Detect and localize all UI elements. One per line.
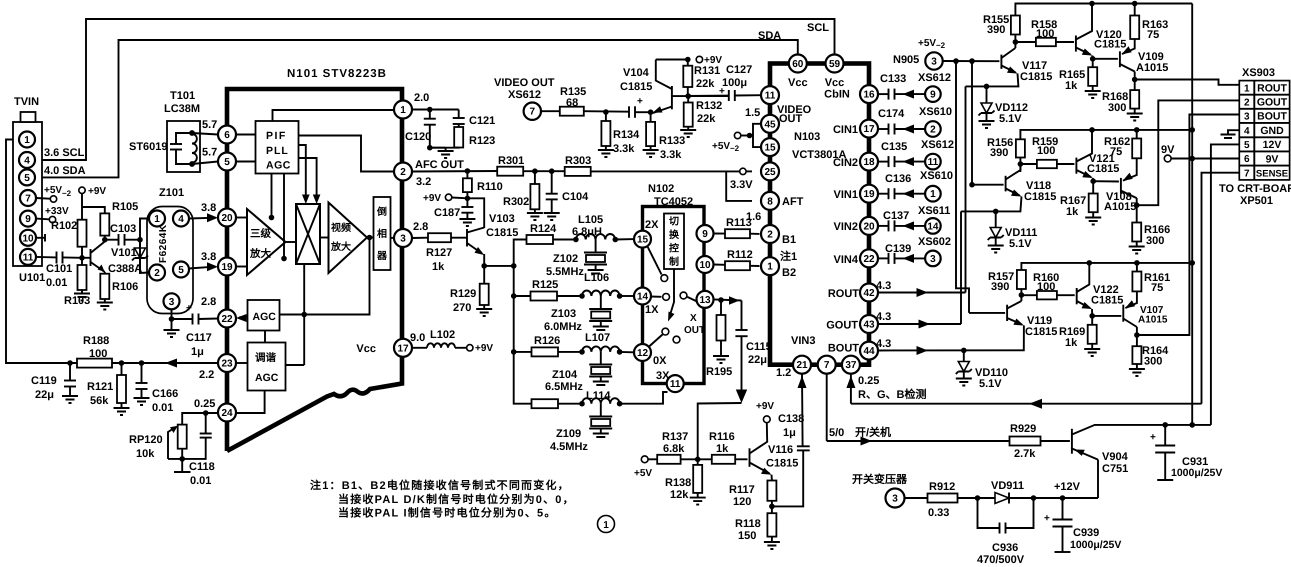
svg-text:XS602: XS602 <box>918 236 951 248</box>
N103 pin 18 <box>860 153 878 171</box>
resistor R138 <box>697 459 699 465</box>
wire AGC bottom to amp node2 <box>283 174 285 259</box>
ceramic filter Z109 <box>600 404 602 417</box>
resistor R157 <box>1017 270 1026 289</box>
svg-text:V116: V116 <box>768 444 793 456</box>
ceramic filter Z102 <box>595 240 597 253</box>
node C103 junction <box>102 237 108 243</box>
svg-text:N103: N103 <box>794 131 820 143</box>
svg-text:N905: N905 <box>893 54 919 66</box>
svg-text:C187: C187 <box>434 207 460 219</box>
terminal +5V <box>641 456 648 463</box>
svg-text:注1：B1、B2电位随接收信号制式不同而变化，: 注1：B1、B2电位随接收信号制式不同而变化， <box>310 479 570 492</box>
svg-text:4.3: 4.3 <box>876 338 891 350</box>
svg-text:C118: C118 <box>189 461 215 473</box>
transistor V120 <box>1075 36 1077 52</box>
capacitor C138 <box>797 445 810 447</box>
N103 pin 2 <box>761 225 779 243</box>
N103 pin 25 <box>761 162 779 180</box>
svg-text:1: 1 <box>603 520 609 531</box>
svg-text:120: 120 <box>733 496 751 508</box>
svg-text:开关变压器: 开关变压器 <box>852 473 908 486</box>
svg-text:PLL: PLL <box>266 145 289 157</box>
resistor R162 <box>1136 130 1138 139</box>
svg-text:1: 1 <box>400 105 406 116</box>
svg-text:SENSE: SENSE <box>1256 169 1288 180</box>
pin 1 <box>19 132 35 148</box>
svg-text:放大: 放大 <box>249 247 271 260</box>
svg-text:AGC: AGC <box>253 311 277 323</box>
svg-text:15: 15 <box>637 235 649 246</box>
node V103 emitter <box>481 263 487 269</box>
svg-text:19: 19 <box>863 189 875 200</box>
svg-text:R102: R102 <box>51 220 77 232</box>
svg-text:C119: C119 <box>31 375 57 387</box>
svg-text:3.8: 3.8 <box>201 202 216 214</box>
N103 pin 22 <box>860 249 878 267</box>
svg-text:当接收PAL I制信号时电位分别为0、5。: 当接收PAL I制信号时电位分别为0、5。 <box>338 507 557 520</box>
N103 pin 42 <box>860 284 878 302</box>
svg-text:2.8: 2.8 <box>201 296 216 308</box>
diode VD911 <box>995 493 1009 504</box>
wire T101 to pin6 <box>192 133 218 135</box>
svg-text:21: 21 <box>796 360 808 371</box>
wire 9V distribution riser <box>1191 4 1193 425</box>
svg-text:4.5MHz: 4.5MHz <box>550 441 588 453</box>
resistor R135 <box>541 110 560 112</box>
svg-text:9.0: 9.0 <box>410 332 425 344</box>
svg-text:300: 300 <box>1146 235 1164 247</box>
svg-text:C1815: C1815 <box>766 458 798 470</box>
wire +9V rail (stage2) <box>1020 130 1192 139</box>
svg-text:−2: −2 <box>936 41 946 50</box>
N103 pin 7 <box>818 356 836 374</box>
svg-text:0.01: 0.01 <box>190 475 211 487</box>
svg-text:3: 3 <box>931 57 937 68</box>
pin 11 <box>20 249 36 265</box>
svg-text:4.3: 4.3 <box>876 311 891 323</box>
ground (C120) <box>445 148 447 151</box>
N101 pin 17 Vcc <box>394 339 412 357</box>
svg-text:10: 10 <box>699 260 711 271</box>
svg-text:C939: C939 <box>1073 527 1099 539</box>
SECTION-G <box>756 374 1202 507</box>
Z101 pin 4 <box>173 211 189 227</box>
connector U101 TVIN body <box>13 122 42 266</box>
IC N102 outline <box>643 207 705 384</box>
N102 pin 14 <box>634 288 651 305</box>
svg-text:10k: 10k <box>136 448 155 460</box>
svg-text:1000μ/25V: 1000μ/25V <box>1171 467 1222 479</box>
wire pin5 to PIF <box>236 161 256 163</box>
svg-text:3.8: 3.8 <box>201 251 216 263</box>
svg-text:68: 68 <box>566 97 578 109</box>
svg-text:18: 18 <box>863 157 875 168</box>
capacitor C101 <box>36 256 57 259</box>
svg-text:U101: U101 <box>19 272 45 284</box>
IC N103 bus outline <box>770 64 869 365</box>
SECTION-H <box>310 479 615 533</box>
wire pin20 to amp <box>236 217 247 219</box>
resistor R163 <box>1134 4 1136 16</box>
svg-text:3: 3 <box>930 254 936 265</box>
pin 7 <box>20 190 36 206</box>
svg-text:1.6: 1.6 <box>746 211 761 223</box>
resistor R103 <box>81 258 83 265</box>
svg-text:3.6 SCL: 3.6 SCL <box>44 147 85 159</box>
svg-text:C174: C174 <box>878 108 905 120</box>
svg-text:GOUT: GOUT <box>1257 97 1288 109</box>
svg-text:R303: R303 <box>565 155 591 167</box>
svg-text:Z101: Z101 <box>159 187 184 199</box>
svg-text:45: 45 <box>764 119 776 130</box>
N103 pin 60 <box>789 55 807 73</box>
svg-text:1.5: 1.5 <box>745 107 760 119</box>
svg-text:1μ: 1μ <box>191 346 204 358</box>
svg-text:倒: 倒 <box>376 206 387 218</box>
svg-text:22μ: 22μ <box>35 389 54 401</box>
svg-text:16: 16 <box>863 90 875 101</box>
Z101 pin 1 <box>149 211 165 227</box>
svg-text:3: 3 <box>1244 112 1250 123</box>
resistor R131 <box>687 60 689 66</box>
zener VD110 <box>963 350 965 361</box>
svg-text:19: 19 <box>221 262 233 273</box>
svg-text:5.7: 5.7 <box>202 119 217 131</box>
svg-text:N101 STV8223B: N101 STV8223B <box>287 68 387 80</box>
svg-text:2: 2 <box>767 230 773 241</box>
ground (Z101 pin3) <box>164 330 180 337</box>
svg-text:100: 100 <box>89 348 107 360</box>
wire pin13 X OUT to C115 <box>714 299 742 300</box>
svg-text:6.8k: 6.8k <box>663 443 685 455</box>
SECTION-A <box>6 19 835 363</box>
svg-text:0.01: 0.01 <box>152 402 173 414</box>
ceramic filter Z103 <box>600 296 602 309</box>
svg-text:0.25: 0.25 <box>858 375 879 387</box>
svg-text:44: 44 <box>863 346 875 357</box>
wire +9V rail down <box>81 194 83 220</box>
svg-text:2: 2 <box>154 268 160 279</box>
svg-text:C121: C121 <box>469 115 495 127</box>
resistor R123 <box>458 124 460 127</box>
svg-text:C120: C120 <box>405 131 431 143</box>
svg-text:60: 60 <box>792 59 804 70</box>
svg-text:SCL: SCL <box>807 22 829 34</box>
svg-text:A1015: A1015 <box>1136 62 1168 74</box>
capacitor C117 <box>172 318 193 320</box>
svg-text:OUT: OUT <box>779 113 803 125</box>
svg-text:15: 15 <box>764 143 776 154</box>
transistor V904 <box>1071 429 1073 454</box>
svg-text:C101: C101 <box>46 263 72 275</box>
svg-text:12: 12 <box>637 348 649 359</box>
resistor R159 <box>1020 163 1037 165</box>
svg-text:BOUT: BOUT <box>1257 111 1287 123</box>
svg-text:0X: 0X <box>653 355 667 367</box>
capacitor C936 <box>978 498 1000 528</box>
wire B-out to XS903 row3 <box>1137 115 1239 336</box>
svg-text:5: 5 <box>224 157 230 168</box>
wire mixer to video amp <box>320 237 329 239</box>
svg-text:5: 5 <box>24 173 30 184</box>
svg-text:75: 75 <box>1110 146 1122 158</box>
svg-text:R126: R126 <box>534 335 560 347</box>
ground (XS903 GND row) <box>1228 130 1239 134</box>
svg-text:9: 9 <box>25 214 31 225</box>
svg-text:B2: B2 <box>782 267 796 279</box>
svg-text:+9V: +9V <box>423 193 441 204</box>
svg-text:V104: V104 <box>623 67 650 79</box>
wire pin19 to amp <box>236 266 247 268</box>
svg-text:ST6019: ST6019 <box>129 141 168 153</box>
resistor R126 <box>532 347 559 356</box>
resistor R168 <box>1134 80 1136 91</box>
svg-text:CIN1: CIN1 <box>833 124 858 136</box>
svg-text:Z104: Z104 <box>552 369 578 381</box>
svg-text:10: 10 <box>22 233 34 244</box>
svg-text:R121: R121 <box>87 381 113 393</box>
svg-text:1μ: 1μ <box>783 427 796 439</box>
svg-text:11: 11 <box>765 91 776 102</box>
IC N101 outline <box>227 89 402 451</box>
SECTION-E <box>688 55 926 402</box>
svg-text:T101: T101 <box>170 90 195 102</box>
resistor R155 <box>1011 16 1020 35</box>
svg-text:XS903: XS903 <box>1242 67 1275 79</box>
svg-text:A1015: A1015 <box>1104 201 1136 213</box>
svg-text:100: 100 <box>1037 145 1055 157</box>
svg-text:23: 23 <box>221 359 233 370</box>
svg-text:XS611: XS611 <box>918 205 950 217</box>
wire Z101 pin5 to N101 pin19 (arrow) <box>189 267 212 269</box>
SECTION-B <box>129 68 412 451</box>
svg-text:AFT: AFT <box>782 196 804 208</box>
transistor V122 <box>1076 288 1078 304</box>
svg-text:Z109: Z109 <box>556 428 581 440</box>
svg-text:Z103: Z103 <box>551 308 576 320</box>
svg-text:3: 3 <box>400 234 406 245</box>
svg-text:R103: R103 <box>64 295 90 307</box>
wire Z101 pin4 to N101 pin20 (arrow) <box>189 217 212 220</box>
svg-text:器: 器 <box>376 250 388 262</box>
svg-text:1k: 1k <box>716 443 729 455</box>
capacitor C119 <box>69 363 71 381</box>
arrows PIF to mixer <box>299 145 306 198</box>
svg-text:2: 2 <box>930 125 936 136</box>
svg-text:+: + <box>1044 513 1050 524</box>
ceramic filter Z104 <box>600 352 602 365</box>
N103 pin 17 <box>860 120 878 138</box>
resistor R195 <box>720 300 722 315</box>
svg-text:17: 17 <box>397 343 409 354</box>
svg-text:6.5MHz: 6.5MHz <box>545 381 583 393</box>
svg-text:R106: R106 <box>112 281 138 293</box>
resistor R929 <box>1010 437 1041 446</box>
N103 pin 8 AFT <box>761 192 779 210</box>
resistor R302 <box>534 171 536 184</box>
svg-text:25: 25 <box>764 167 776 178</box>
wire V117 emitter line <box>966 74 1019 87</box>
svg-text:11: 11 <box>670 379 681 390</box>
coupling capacitor <box>628 106 630 118</box>
wire +9V rail (stage3) <box>1021 263 1192 270</box>
svg-text:VIN1: VIN1 <box>834 189 858 201</box>
svg-text:+5V: +5V <box>44 185 62 196</box>
svg-text:R105: R105 <box>112 201 138 213</box>
wire C115 to V116 base node <box>698 403 742 459</box>
svg-text:470/500V: 470/500V <box>977 554 1025 566</box>
wire T101 to pin5 <box>192 162 218 165</box>
svg-text:150: 150 <box>738 530 756 542</box>
svg-text:100: 100 <box>1037 281 1055 293</box>
wire pin9 to +33V terminal <box>36 218 49 221</box>
svg-text:C137: C137 <box>883 210 909 222</box>
svg-text:R195: R195 <box>706 366 732 378</box>
video amp triangle (视频放大) <box>329 203 368 274</box>
transistor V116 <box>749 448 751 467</box>
svg-text:4: 4 <box>1244 126 1250 137</box>
svg-text:V904: V904 <box>1102 451 1129 463</box>
svg-text:+5V: +5V <box>634 468 652 479</box>
svg-text:12k: 12k <box>670 489 689 501</box>
svg-text:GND: GND <box>1260 125 1284 137</box>
svg-text:7: 7 <box>530 107 536 118</box>
svg-text:R、G、B检测: R、G、B检测 <box>858 388 926 401</box>
resistor R121 <box>121 363 123 375</box>
phase inverter box (倒相器) <box>374 197 391 270</box>
svg-text:2: 2 <box>1244 97 1250 108</box>
wire +12V line <box>1009 497 1098 499</box>
svg-text:100: 100 <box>1036 28 1054 40</box>
resistor R301 <box>497 167 523 176</box>
capacitor C121 <box>458 110 460 119</box>
svg-text:300: 300 <box>1108 102 1126 114</box>
svg-text:+: + <box>186 303 192 314</box>
wire pin7 down to on/off line <box>826 374 828 441</box>
svg-text:+9V: +9V <box>88 186 106 197</box>
svg-text:20: 20 <box>863 221 875 232</box>
svg-text:3.2: 3.2 <box>416 176 431 188</box>
svg-text:5.5MHz: 5.5MHz <box>546 266 584 278</box>
svg-text:2: 2 <box>400 167 406 178</box>
svg-text:5.7: 5.7 <box>202 147 217 159</box>
wire on/off line to R929 <box>827 440 1010 442</box>
svg-text:14: 14 <box>637 292 649 303</box>
svg-text:6.0MHz: 6.0MHz <box>544 321 582 333</box>
svg-text:L107: L107 <box>585 332 610 344</box>
wire pin7 to +5V-2 terminal <box>36 197 50 200</box>
svg-text:37: 37 <box>845 360 857 371</box>
N101 pin 1 <box>394 101 412 119</box>
svg-text:Vcc: Vcc <box>825 77 845 89</box>
N102 pin 11 <box>667 375 684 392</box>
svg-text:7: 7 <box>824 360 830 371</box>
svg-text:390: 390 <box>990 147 1008 159</box>
Z101 pin 5 <box>173 262 189 278</box>
wire zener node to Z101 pin1/pin2 <box>140 219 149 274</box>
svg-text:R929: R929 <box>1010 423 1036 435</box>
wire V118 emitter line <box>961 197 1022 212</box>
svg-text:1k: 1k <box>1065 80 1078 92</box>
svg-text:VIN3: VIN3 <box>791 335 815 347</box>
svg-text:切: 切 <box>669 216 679 228</box>
terminal +9V <box>79 187 85 193</box>
svg-text:+5V: +5V <box>712 141 730 152</box>
svg-text:−2: −2 <box>730 144 740 153</box>
svg-text:1X: 1X <box>645 304 659 316</box>
svg-text:75: 75 <box>1147 29 1159 41</box>
N101 pin 20 <box>218 209 236 227</box>
wire Z101 pin3 down <box>171 309 173 319</box>
transistor V117 <box>1000 55 1002 69</box>
resistor R132 <box>687 96 689 102</box>
block 切换控制 <box>664 214 684 270</box>
capacitor C103 <box>105 239 119 241</box>
capacitor C166 <box>141 363 143 383</box>
svg-text:放大: 放大 <box>330 241 351 253</box>
transistor V119 <box>1006 305 1008 321</box>
wire V119 emitter to BOUT line <box>878 326 1024 351</box>
wire pin21 to C138 (arrow up) <box>801 374 804 447</box>
svg-text:V101: V101 <box>111 247 137 259</box>
wire R303 to N103 AFT <box>591 170 740 172</box>
svg-text:R125: R125 <box>532 279 558 291</box>
resistor R117 <box>771 475 773 481</box>
resistor R105 <box>100 213 109 235</box>
svg-text:XS610: XS610 <box>919 106 952 118</box>
svg-text:1: 1 <box>1244 83 1250 94</box>
N103 pin 59 <box>826 55 844 73</box>
N101 pin 19 <box>218 258 236 276</box>
svg-text:8: 8 <box>767 196 773 207</box>
resistor R110 <box>466 171 468 178</box>
N103 pin 11 <box>761 86 779 104</box>
wire G-out to XS903 row2 <box>1137 100 1240 205</box>
capacitor C115 <box>741 301 743 331</box>
wire R188 row to N101 pin23 <box>70 362 218 364</box>
svg-text:ROUT: ROUT <box>828 288 859 300</box>
svg-text:3.3V: 3.3V <box>730 179 753 191</box>
svg-text:TVIN: TVIN <box>14 96 39 108</box>
wire +9V rail (stage1) <box>1015 4 1192 16</box>
transistor V118 <box>1005 176 1007 192</box>
resistor (L114 row) <box>532 399 559 408</box>
svg-text:ROUT: ROUT <box>1257 83 1287 95</box>
svg-text:9V: 9V <box>1161 144 1175 156</box>
wire SCL from TVIN pin4 to N103 pin59 <box>35 19 835 160</box>
svg-text:GOUT: GOUT <box>826 320 858 332</box>
svg-text:制: 制 <box>669 256 679 268</box>
resistor R164 <box>1136 335 1138 346</box>
svg-text:L106: L106 <box>584 272 609 284</box>
svg-text:R112: R112 <box>727 249 753 261</box>
resistor R118 <box>767 513 776 536</box>
N103 pin 43 <box>860 315 878 333</box>
svg-text:22k: 22k <box>697 113 716 125</box>
svg-text:CIN2: CIN2 <box>833 157 858 169</box>
N101 pin 6 <box>218 126 236 144</box>
svg-text:R110: R110 <box>477 181 503 193</box>
svg-text:TO CRT-BOAR C: TO CRT-BOAR C <box>1219 183 1291 195</box>
resistor R125 <box>531 292 558 301</box>
svg-text:换: 换 <box>669 229 680 241</box>
svg-text:R123: R123 <box>469 135 495 147</box>
svg-text:当接收PAL D/K制信号时电位分别为0、0，: 当接收PAL D/K制信号时电位分别为0、0， <box>338 493 575 506</box>
capacitor C118 <box>205 413 207 434</box>
svg-text:11: 11 <box>23 252 34 263</box>
svg-text:R117: R117 <box>729 484 755 496</box>
